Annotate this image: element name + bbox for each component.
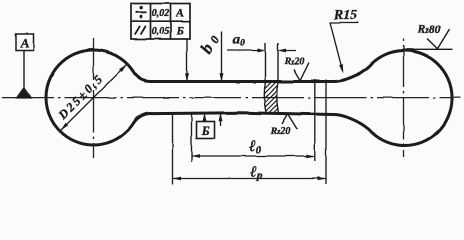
svg-text:A: A (20, 36, 29, 50)
vertical centerline right head (403, 37, 405, 157)
roughness mark Rz20 top (294, 63, 310, 81)
symbol coaxiality (divide sign) (135, 6, 147, 19)
svg-text:Rz20: Rz20 (284, 57, 305, 68)
lp dimension line (173, 178, 327, 180)
a0 extension line left / section boundary (264, 43, 266, 113)
R15 shelf (330, 22, 360, 24)
b0 arrow bottom (220, 114, 222, 126)
svg-text:R15: R15 (333, 8, 357, 23)
svg-text:A: A (175, 8, 184, 20)
datum Б leader arrow (204, 115, 206, 122)
svg-text:Rz80: Rz80 (417, 24, 441, 36)
section hatching (224, 74, 322, 120)
lp extension line left (172, 115, 174, 185)
datum A leader (23, 51, 25, 89)
datum A box left (16, 34, 34, 51)
R15 leader (330, 23, 343, 71)
symbol parallelism // (135, 26, 146, 35)
lp extension line right crossing bar (325, 80, 327, 185)
a0 extension line right / section boundary (277, 43, 279, 113)
b0 leader top (221, 31, 223, 81)
vertical centerline left head (93, 38, 95, 158)
roughness mark Rz80 on right head (406, 48, 453, 50)
svg-text:0,02: 0,02 (152, 8, 170, 19)
datum Б box (197, 122, 215, 139)
tolerance frame (131, 4, 190, 40)
frame leader to top edge (186, 39, 188, 81)
b0 label (196, 40, 217, 57)
a0 dimension line right (280, 50, 297, 52)
l0 extension line right crossing bar (314, 80, 316, 162)
horizontal centerline (axis) (2, 97, 461, 99)
specimen outline (dumbbell test bar) (46, 50, 452, 145)
svg-text:Rz20: Rz20 (270, 126, 291, 137)
datum A triangle on axis (15, 87, 32, 99)
svg-text:0,05: 0,05 (152, 26, 170, 37)
a0 dimension line left (227, 50, 264, 52)
l0 dimension line (192, 155, 315, 157)
D25 label (55, 73, 105, 123)
svg-text:Б: Б (201, 124, 210, 138)
D25 dimension line (61, 64, 127, 130)
l0 extension line left (191, 115, 193, 163)
roughness mark Rz20 bottom (282, 114, 298, 129)
svg-text:Б: Б (176, 25, 184, 37)
